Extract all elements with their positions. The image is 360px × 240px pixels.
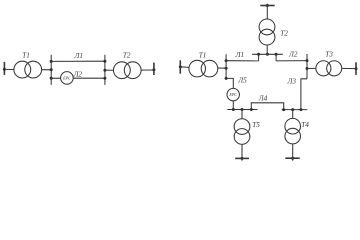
- terminal tick left: [179, 60, 181, 73]
- L1 riser to top bus: [258, 54, 260, 61]
- junction dot at left terminal: [3, 68, 6, 71]
- svg-text:Т2: Т2: [123, 52, 131, 60]
- junction dot at T5 terminal: [241, 157, 244, 160]
- wire bus D to T3: [307, 67, 316, 69]
- wire terminal to T1: [4, 68, 14, 70]
- junction dot top bus / L2: [275, 53, 278, 56]
- svg-text:Л4: Л4: [258, 94, 268, 102]
- junction dot bus A / L2: [50, 77, 53, 80]
- line L1 wire: [51, 60, 105, 62]
- T2 lead down to top bus: [266, 45, 268, 54]
- transformer T2 (two stacked circles): [259, 19, 275, 35]
- svg-text:Т1: Т1: [199, 51, 207, 59]
- line L2 left segment: [51, 77, 60, 79]
- junction dot bus B / L1: [103, 60, 106, 63]
- transformer T1 (two overlapping circles): [189, 60, 206, 77]
- junction dot at T4 terminal: [291, 157, 294, 160]
- T4 lower lead: [292, 144, 294, 161]
- transformer T2 (two overlapping circles): [114, 62, 131, 79]
- wire bus B to T2: [105, 69, 114, 71]
- EMF source EPC circle: [227, 88, 239, 100]
- svg-text:Л2: Л2: [288, 51, 298, 59]
- T5 lower lead: [241, 144, 243, 160]
- junction dot bus B / T2: [103, 69, 106, 72]
- transformer T3 (two overlapping circles): [316, 61, 331, 76]
- bus B (vertical): [104, 55, 106, 85]
- wire terminal to T1: [180, 66, 189, 69]
- junction dot bus A / T1: [50, 68, 53, 71]
- svg-text:Т1: Т1: [22, 52, 30, 60]
- T4 upper lead: [292, 110, 294, 119]
- T2 lead up to terminal: [266, 4, 268, 19]
- transformer T4 (two stacked circles): [285, 118, 301, 134]
- junction dot bottom-left bus / T5: [241, 108, 244, 111]
- terminal tick T5 bottom: [235, 157, 249, 159]
- bus C bottom corner to L5 column: [226, 78, 233, 88]
- junction dot at right terminal: [355, 67, 358, 70]
- T5 upper lead: [241, 110, 243, 119]
- junction dot bottom-left bus / L5: [232, 108, 235, 111]
- wire T1 to bus C: [218, 67, 226, 69]
- bus A (vertical): [50, 55, 52, 85]
- bottom-right bus: [282, 109, 308, 111]
- svg-text:Т2: Т2: [280, 30, 288, 38]
- junction dot bus D / T3: [306, 67, 309, 70]
- terminal tick left: [3, 62, 5, 75]
- wire T3 to right terminal: [342, 67, 356, 69]
- junction dot bottom-right bus / T4: [291, 108, 294, 111]
- junction dot bus B / L2: [103, 77, 106, 80]
- svg-text:Л3: Л3: [286, 77, 296, 85]
- junction dot bottom-left bus / L4: [250, 108, 253, 111]
- transformer T1 (two overlapping circles): [14, 61, 31, 78]
- junction dot bottom-right bus / L4: [282, 108, 285, 111]
- transformer T5 (two stacked circles): [234, 119, 250, 135]
- wire T2 to right terminal: [141, 69, 154, 71]
- junction dot bus D / L2: [306, 59, 309, 62]
- bus C (vertical): [225, 54, 227, 78]
- line L2 wire: [276, 60, 307, 62]
- junction dot at right terminal: [152, 68, 155, 71]
- junction dot bus C bottom corner: [225, 77, 228, 80]
- svg-text:Л1: Л1: [235, 51, 244, 59]
- terminal tick right: [355, 62, 357, 75]
- L5 column lower segment: [232, 101, 234, 110]
- terminal tick right: [153, 63, 155, 75]
- junction dot top bus / T2: [266, 53, 269, 56]
- terminal tick T2 top: [260, 5, 274, 7]
- junction dot bus C / L1: [225, 59, 228, 62]
- junction dot top bus / L1: [257, 53, 260, 56]
- svg-text:Т3: Т3: [325, 51, 333, 59]
- junction dot bottom-right bus / L3: [299, 108, 302, 111]
- junction dot bus A / L1: [50, 60, 53, 63]
- svg-text:ЕРС: ЕРС: [228, 92, 237, 97]
- terminal tick T4 bottom: [285, 157, 299, 159]
- svg-text:Т5: Т5: [252, 121, 260, 129]
- svg-text:Л1: Л1: [73, 52, 82, 60]
- junction dot at left terminal: [179, 65, 182, 68]
- L2 riser from top bus: [275, 54, 277, 61]
- svg-text:ЕРС: ЕРС: [62, 76, 71, 81]
- svg-text:Т4: Т4: [301, 121, 309, 129]
- top bus under T2: [252, 53, 283, 55]
- svg-text:Л2: Л2: [73, 70, 83, 78]
- junction dot at T2 terminal: [266, 4, 269, 7]
- bottom-left bus: [227, 109, 257, 111]
- junction dot bus C / T1: [225, 67, 228, 70]
- EMF source EPC circle: [61, 72, 74, 85]
- line L1 wire: [226, 60, 259, 62]
- svg-text:Л5: Л5: [237, 77, 247, 85]
- line L3 column: [301, 79, 307, 110]
- bus D (vertical right): [306, 54, 308, 79]
- line L2 right segment: [73, 77, 105, 79]
- wire T1 to bus A: [42, 69, 52, 71]
- line L4 (raised link): [251, 103, 283, 110]
